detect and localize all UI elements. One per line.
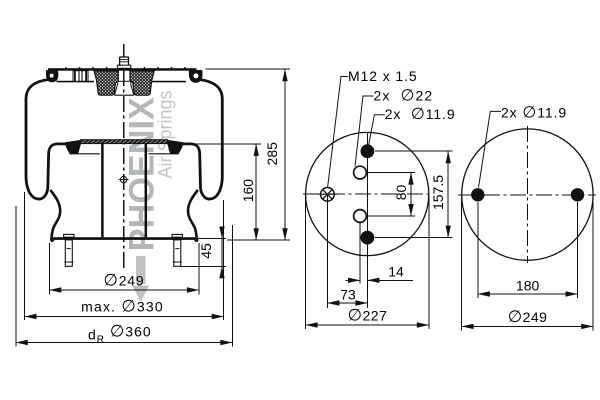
dim 157.5 extension bottom	[375, 237, 453, 239]
hole dia22 bottom (open)	[354, 210, 367, 223]
rubber bumper right block	[130, 71, 154, 95]
middle view horizontal centerline	[303, 193, 433, 195]
bottom plate lip left	[50, 240, 55, 242]
dim 14 arrows	[348, 278, 360, 283]
svg-text:73: 73	[340, 286, 356, 302]
dim 157.5 line	[447, 151, 449, 237]
dim 45 extension bottom	[181, 265, 226, 267]
dim 73 arrows	[327, 300, 339, 305]
right bead roll	[189, 70, 203, 83]
air fitting M12 (X circle)	[318, 188, 337, 202]
shared bottom extension	[227, 239, 290, 241]
bellows outer wall + roll, right	[182, 80, 223, 200]
centre mark on piston	[119, 175, 129, 185]
dim 180 extension right	[577, 202, 579, 298]
dia249 extension right	[198, 243, 200, 295]
piston wall left	[101, 144, 104, 237]
leader 2x dia11.9 middle	[369, 115, 385, 145]
svg-text:∅227: ∅227	[348, 307, 388, 325]
right view outer circle dia249	[462, 129, 593, 260]
svg-text:max. ∅330: max. ∅330	[81, 298, 164, 316]
dim 80 extension top	[367, 172, 415, 174]
bolt hole dia11.9 left (filled)	[471, 188, 484, 201]
hole dia22 top (open)	[354, 166, 367, 179]
bottom plate	[50, 237, 199, 240]
plate inner flange line left	[57, 81, 95, 83]
dia227 dim line	[306, 324, 429, 326]
dia249 dim line	[49, 289, 199, 291]
left fitting (valve)	[73, 71, 88, 82]
extension line through bolt holes	[366, 133, 368, 308]
dia330 extension left	[24, 192, 26, 320]
stud left	[64, 234, 74, 266]
left bead roll	[46, 70, 58, 82]
stud right	[172, 234, 182, 266]
piston plate left wedge	[65, 140, 81, 154]
leaders + labels middle	[328, 77, 385, 188]
svg-text:160: 160	[240, 179, 256, 203]
dim 180 line	[478, 293, 578, 295]
arrows side view	[16, 69, 288, 345]
dia249 right view arrows	[462, 324, 474, 329]
dim 73 line	[327, 302, 367, 304]
dim 285 extension top	[206, 68, 291, 70]
dim 160 extension top	[173, 143, 261, 145]
svg-text:∅249: ∅249	[104, 272, 145, 290]
svg-text:14: 14	[388, 264, 404, 280]
dia330 extension right	[223, 200, 225, 320]
dim 157.5 extension top	[375, 150, 453, 152]
svg-text:M12 x 1.5: M12 x 1.5	[348, 68, 418, 84]
right view vertical centerline	[526, 126, 528, 263]
watermark PHOENIX	[123, 90, 177, 302]
160 arrows	[254, 144, 259, 156]
svg-text:2x ∅11.9: 2x ∅11.9	[501, 104, 567, 121]
bumper centre boss outline	[117, 80, 132, 82]
piston wall right	[145, 144, 148, 237]
extension line from air fitting down	[326, 194, 328, 308]
svg-text:∅249: ∅249	[508, 308, 548, 326]
bottom plate lip right	[194, 240, 199, 242]
svg-text:2x ∅22: 2x ∅22	[374, 88, 434, 105]
svg-text:Air Springs: Air Springs	[155, 90, 177, 178]
bolt hole dia11.9 bottom (filled)	[361, 231, 375, 245]
dim 157.5 arrows	[446, 151, 451, 163]
top plate	[48, 68, 197, 71]
dim 160 line	[255, 144, 257, 240]
dia249 extension left	[48, 243, 50, 295]
dim 180 arrows	[478, 291, 490, 296]
dia330 arrows	[25, 314, 37, 319]
285 arrows	[282, 69, 287, 81]
dim 80 arrows	[408, 173, 413, 185]
piston plate flange bottom line left	[70, 153, 100, 155]
piston plate right wedge	[167, 140, 183, 154]
svg-text:2x ∅11.9: 2x ∅11.9	[385, 106, 456, 123]
dim 80 extension bottom	[367, 215, 415, 217]
piston plate flange bottom line right	[149, 153, 179, 155]
extension line through open holes	[359, 216, 361, 284]
dim 285 line	[284, 69, 286, 240]
leader 2x dia11.9 right	[479, 111, 502, 187]
dia330 dim line	[25, 316, 224, 318]
right view horizontal centerline	[458, 194, 596, 196]
plate inner flange line right	[151, 81, 187, 83]
svg-text:180: 180	[516, 277, 540, 293]
watermark logo arrow	[136, 256, 146, 284]
piston top plate (hatched)	[81, 140, 168, 144]
dia360 extension right	[231, 225, 233, 347]
leader M12 x 1.5	[328, 77, 348, 188]
bellows outer wall + roll, left	[26, 80, 67, 200]
dia227 extension left	[305, 196, 307, 329]
svg-text:157.5: 157.5	[430, 175, 446, 210]
dia360 dim line	[16, 342, 233, 344]
dim 14 line left	[346, 279, 360, 281]
dim 45 line	[221, 228, 223, 277]
dim 80 line	[410, 173, 412, 216]
bolt hole dia11.9 top (filled)	[361, 144, 375, 158]
dims middle view	[306, 151, 453, 329]
rubber bumper (crosshatched) left block	[94, 71, 118, 95]
piston skirt left	[50, 190, 60, 237]
dia227 dim arrows	[306, 322, 318, 327]
45 arrows (outside)	[219, 227, 224, 239]
dia227 extension right	[428, 196, 430, 329]
dims right view	[462, 197, 594, 331]
leader 2x dia22	[355, 96, 374, 167]
piston skirt right	[188, 190, 198, 237]
svg-text:285: 285	[264, 142, 280, 166]
dia249 right view extension left	[461, 197, 463, 331]
dia360 arrows	[16, 340, 28, 345]
top stud M12	[117, 57, 130, 68]
dim 14 line right	[368, 279, 413, 281]
dia360 extension left	[15, 206, 17, 347]
middle view outer circle dia227	[306, 132, 429, 255]
dim 180 extension left	[477, 202, 479, 298]
svg-text:80: 80	[393, 185, 409, 201]
plate ticks	[66, 67, 185, 68]
dim 45 extension top	[199, 238, 226, 240]
dia249 right view dim line	[462, 325, 594, 327]
dia249 arrows	[49, 287, 61, 292]
centerline side view	[123, 44, 125, 271]
svg-text:45: 45	[198, 243, 214, 259]
bolt hole dia11.9 right (filled)	[571, 188, 584, 201]
dia249 right view extension right	[592, 197, 594, 331]
